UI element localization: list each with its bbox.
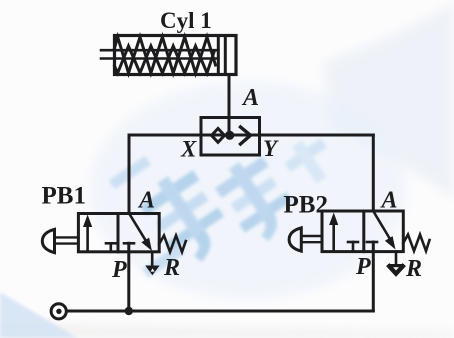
svg-text:P: P bbox=[111, 257, 127, 283]
shuttle valve body bbox=[201, 118, 260, 156]
watermark wash bbox=[88, 80, 408, 300]
node junction dot on rail bbox=[125, 307, 133, 315]
shuttle valve arrow to Y bbox=[241, 127, 251, 144]
cylinder Cyl1 piston bbox=[217, 36, 220, 75]
valve PB2 return spring bbox=[403, 235, 429, 252]
valve PB2 diagonal A to R bbox=[374, 212, 391, 240]
valve PB1 blocked port T (P) bbox=[124, 242, 134, 245]
valve PB2 body bbox=[322, 211, 403, 252]
wire shuttle Y down to PB2 A bbox=[372, 135, 375, 211]
valve PB2 flow arrow up bbox=[332, 221, 335, 250]
valve PB2 blocked port T (P) bbox=[367, 241, 377, 244]
svg-text:R: R bbox=[405, 256, 422, 282]
svg-text:A: A bbox=[241, 85, 259, 111]
watermark glyph G1 bbox=[135, 163, 238, 273]
valve PB1 return spring bbox=[159, 236, 186, 253]
wire cylinder port to shuttle valve bbox=[228, 75, 231, 136]
wire bottom supply rail bbox=[66, 310, 373, 313]
cylinder Cyl1 body bbox=[115, 36, 237, 75]
wire PB2 P port down bbox=[372, 242, 375, 311]
watermark partial G3 bbox=[279, 131, 340, 192]
background tint bottom strip bbox=[0, 324, 454, 338]
cylinder Cyl1 return spring bbox=[115, 37, 216, 73]
svg-text:R: R bbox=[163, 255, 180, 281]
node junction dot in shuttle bbox=[225, 131, 234, 140]
valve PB2 exhaust R bbox=[395, 252, 398, 265]
shuttle valve check ball diamond bbox=[212, 129, 225, 143]
cylinder Cyl1 rod bbox=[101, 49, 218, 52]
wire shuttle X down to PB1 A bbox=[128, 135, 131, 214]
svg-text:A: A bbox=[137, 188, 155, 214]
watermark glyph G2 bbox=[210, 150, 303, 250]
valve PB1 divider bbox=[117, 214, 120, 252]
valve PB2 blocked port T (left box) bbox=[348, 241, 358, 244]
valve PB2 divider bbox=[362, 211, 365, 252]
valve PB1 flow arrow up bbox=[86, 223, 89, 250]
watermark partial G4 bbox=[109, 156, 152, 190]
svg-text:P: P bbox=[355, 254, 371, 280]
watermark partial G5 bbox=[142, 244, 185, 278]
valve PB2 push button bbox=[289, 228, 301, 251]
valve PB1 exhaust R bbox=[151, 252, 154, 266]
svg-text:X: X bbox=[180, 137, 197, 162]
wire PB1 P port down bbox=[127, 243, 130, 311]
svg-text:Y: Y bbox=[263, 136, 279, 161]
background tint bottom-left blue triangle bbox=[0, 292, 78, 338]
svg-text:A: A bbox=[380, 188, 398, 214]
svg-text:PB1: PB1 bbox=[42, 183, 86, 210]
background tint top-right bbox=[322, 2, 454, 200]
valve PB1 diagonal A to R bbox=[130, 214, 147, 241]
pressure source bbox=[51, 304, 66, 319]
valve PB1 body bbox=[78, 214, 159, 252]
wire main horizontal (X to Y through shuttle) bbox=[129, 134, 373, 137]
svg-text:Cyl 1: Cyl 1 bbox=[160, 8, 212, 33]
valve PB1 push button bbox=[42, 229, 54, 252]
valve PB1 blocked port T (left box) bbox=[106, 242, 116, 245]
